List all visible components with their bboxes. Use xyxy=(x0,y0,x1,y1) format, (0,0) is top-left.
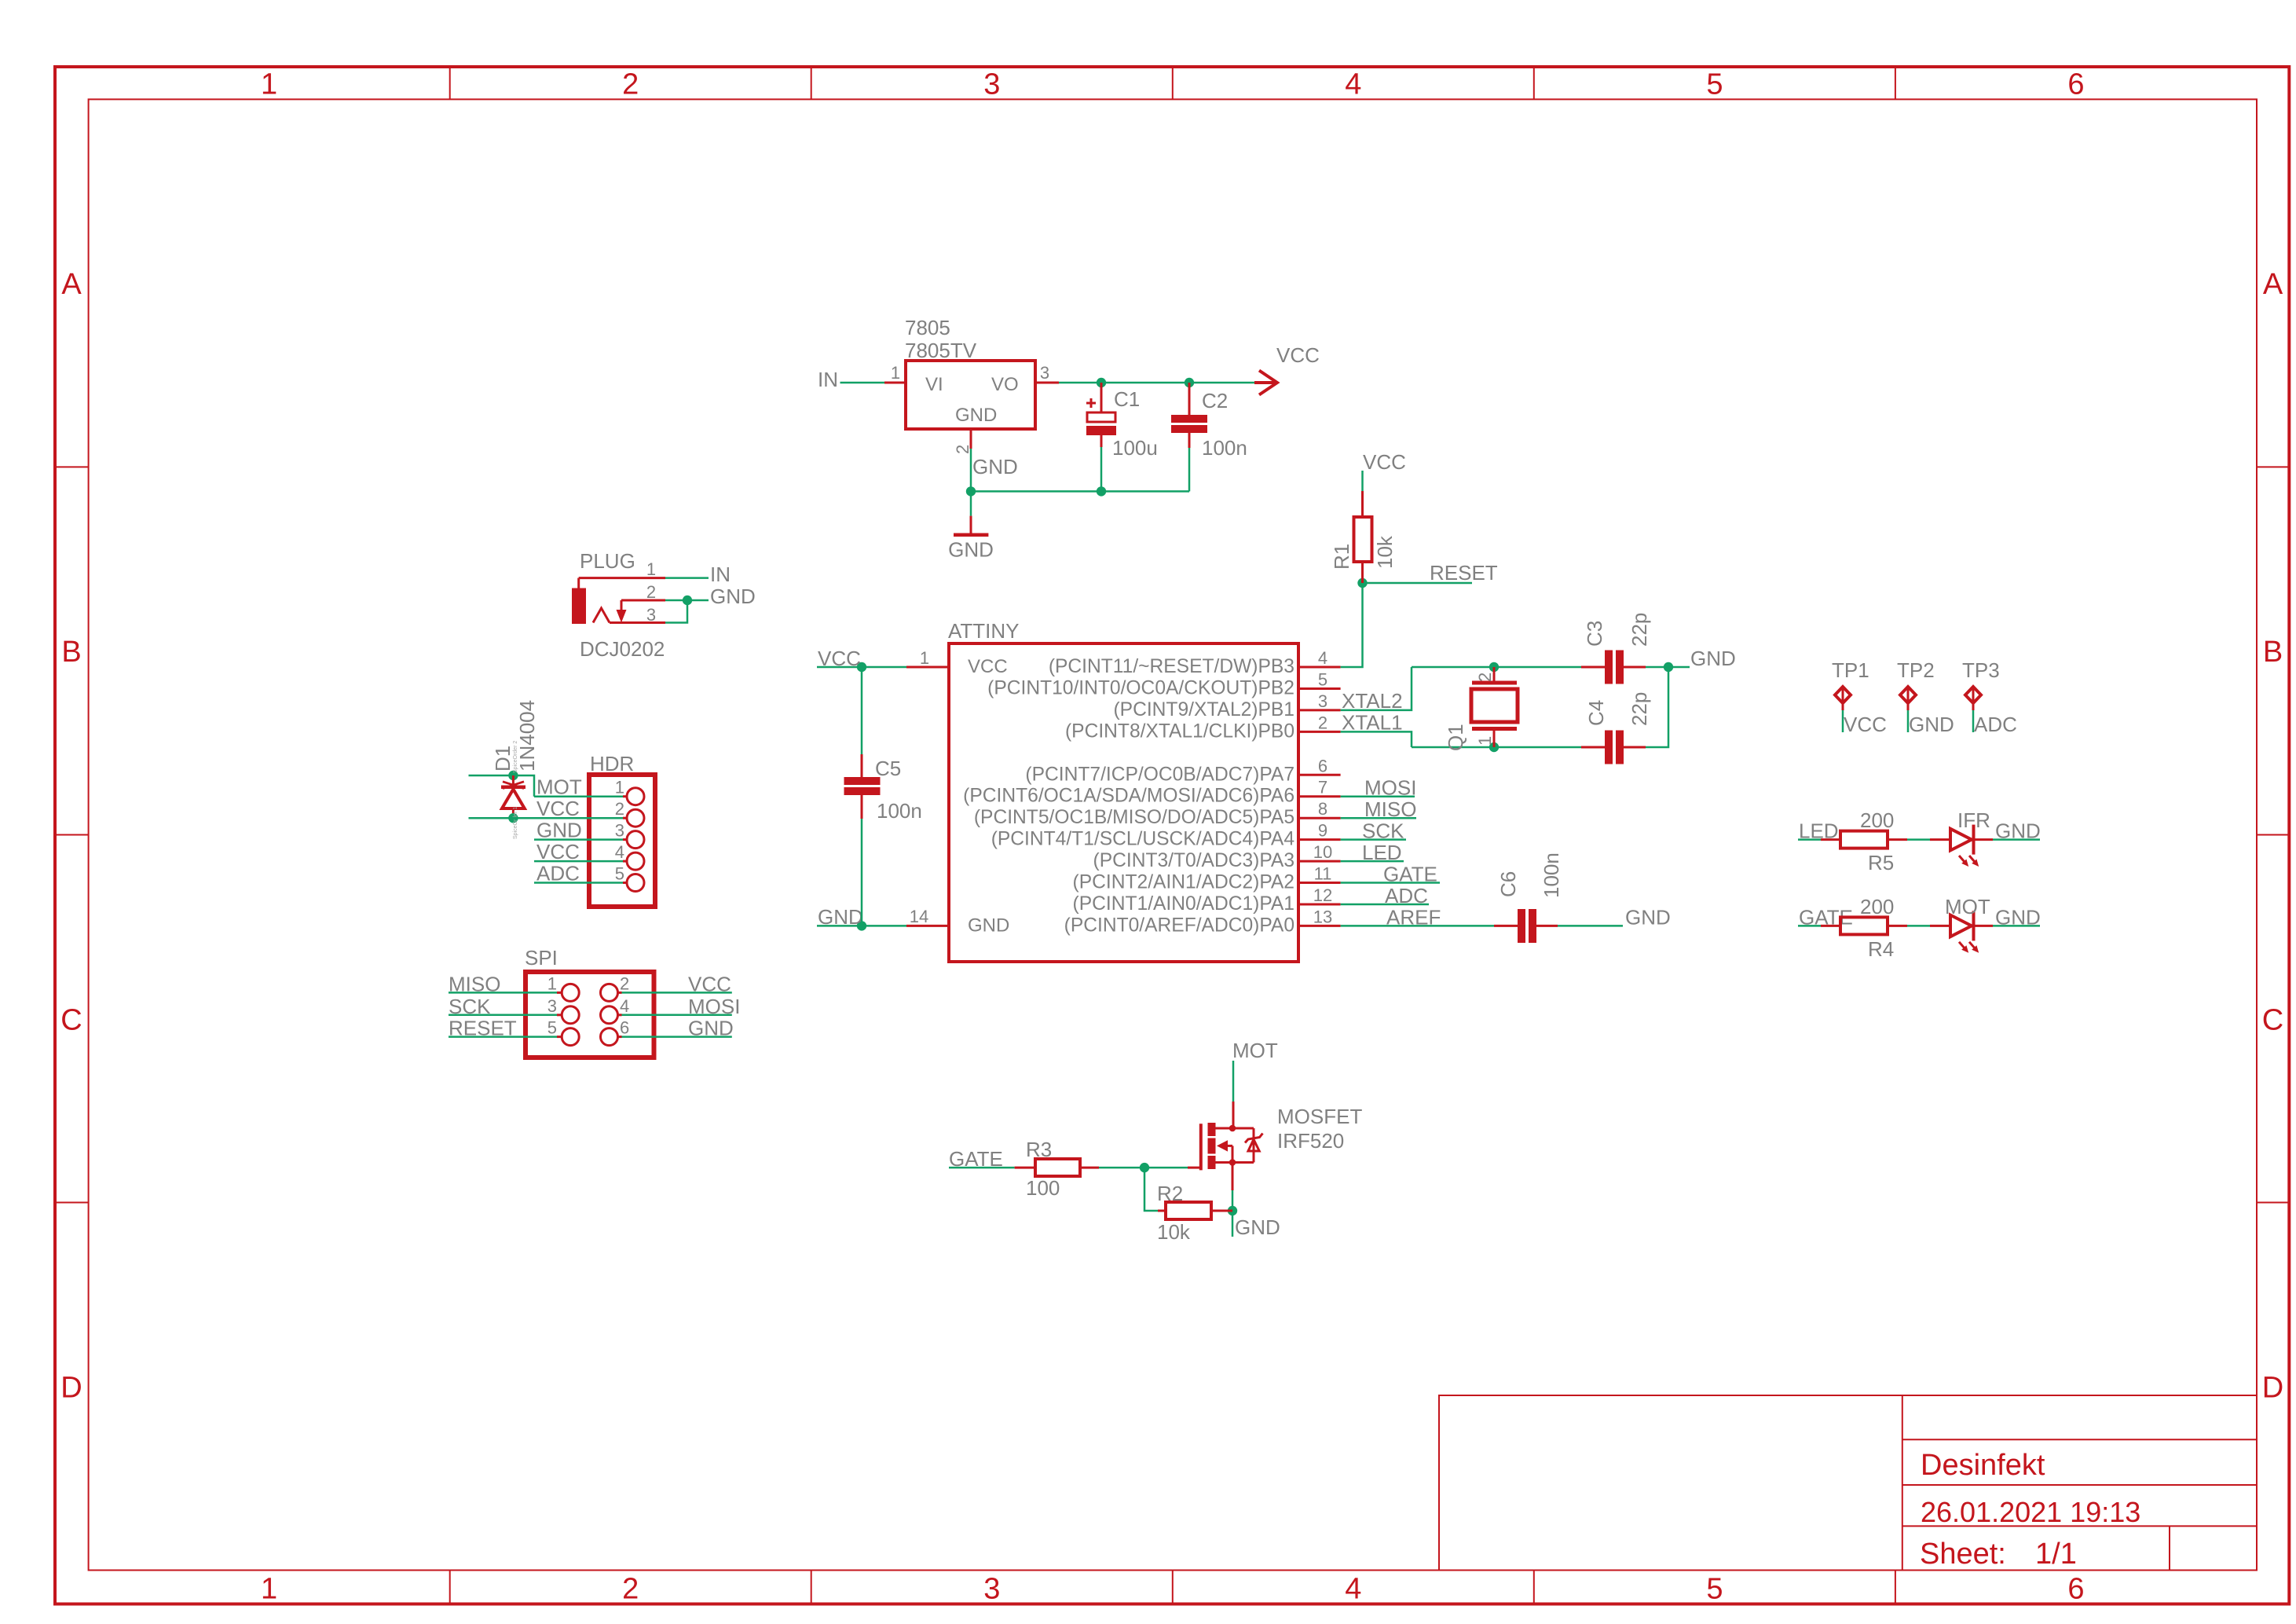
svg-text:R3: R3 xyxy=(1026,1138,1052,1161)
MOSFET drain pin xyxy=(1232,1102,1235,1128)
svg-text:VCC: VCC xyxy=(968,656,1008,677)
svg-text:(PCINT9/XTAL2)PB1: (PCINT9/XTAL2)PB1 xyxy=(1113,699,1294,720)
svg-text:ADC: ADC xyxy=(536,862,580,885)
svg-text:DCJ0202: DCJ0202 xyxy=(580,637,665,661)
wire net IN at plug xyxy=(665,577,709,579)
svg-text:VCC: VCC xyxy=(1844,713,1887,736)
MOSFET substrate arrow xyxy=(1217,1140,1228,1151)
svg-text:100: 100 xyxy=(1026,1176,1060,1200)
svg-text:C: C xyxy=(2262,1003,2283,1036)
capacitor C3 plate 2 xyxy=(1616,651,1624,684)
wire net RESET from ATTINY pin4 xyxy=(1341,583,1363,667)
svg-text:VCC: VCC xyxy=(536,797,580,820)
junction node GND bus at 7805 xyxy=(966,486,976,496)
LED IFR triangle xyxy=(1950,829,1972,851)
svg-text:GND: GND xyxy=(536,819,582,842)
svg-text:1: 1 xyxy=(920,648,929,668)
svg-text:LED: LED xyxy=(1362,841,1402,864)
svg-text:RESET: RESET xyxy=(1430,561,1498,585)
crystal Q1 top plate xyxy=(1472,681,1517,685)
junction node GND right of C3 xyxy=(1664,662,1673,672)
LED MOT anode pin xyxy=(1930,925,1950,927)
svg-text:7805: 7805 xyxy=(905,316,950,339)
pin 6 of SPI xyxy=(618,1036,622,1038)
resistor R4 left pin xyxy=(1821,925,1840,927)
MOSFET drain connection xyxy=(1216,1127,1254,1130)
svg-text:(PCINT5/OC1B/MISO/DO/ADC5)PA5: (PCINT5/OC1B/MISO/DO/ADC5)PA5 xyxy=(974,807,1294,828)
junction node crystal top xyxy=(1489,662,1499,672)
pin 2 of SPI xyxy=(618,992,622,994)
wire net GATE to R4 xyxy=(1798,925,1821,927)
svg-text:22p: 22p xyxy=(1628,613,1651,647)
MOSFET channel bar top xyxy=(1208,1123,1216,1136)
resistor R2 right pin xyxy=(1211,1210,1232,1212)
pin 8 of ATTINY xyxy=(1298,817,1341,819)
capacitor C4 plate 1 xyxy=(1605,731,1613,764)
capacitor C6 left pin xyxy=(1494,925,1518,927)
svg-text:R2: R2 xyxy=(1157,1182,1183,1205)
svg-text:IRF520: IRF520 xyxy=(1277,1129,1344,1153)
pin 2 of HDR xyxy=(623,817,627,819)
frame column labels bottom xyxy=(261,1573,2085,1606)
diode D1 triangle xyxy=(502,790,525,809)
resistor R1 bottom pin xyxy=(1361,562,1364,583)
capacitor C4 right pin xyxy=(1624,746,1646,749)
pin 3 of 7805 xyxy=(1035,382,1059,384)
capacitor C4 plate 2 xyxy=(1616,731,1624,764)
svg-text:VI: VI xyxy=(925,374,943,395)
wire net VCC at SPI xyxy=(622,992,732,994)
svg-text:10k: 10k xyxy=(1157,1220,1191,1244)
capacitor C5 plate 1 xyxy=(844,777,881,785)
junction node VCC at C5 xyxy=(857,662,866,672)
svg-text:3: 3 xyxy=(547,996,557,1016)
svg-text:1: 1 xyxy=(261,68,277,101)
wire crystal top line xyxy=(1412,666,1581,669)
svg-text:1: 1 xyxy=(261,1573,277,1606)
resistor R3 left pin xyxy=(1015,1167,1035,1169)
capacitor C4 left pin xyxy=(1581,746,1605,749)
svg-text:IN: IN xyxy=(710,563,731,586)
capacitor C5 bottom pin xyxy=(861,795,863,819)
LED MOT cathode bar xyxy=(1972,911,1976,940)
svg-text:XTAL2: XTAL2 xyxy=(1342,689,1403,713)
pin 4 of SPI xyxy=(618,1014,622,1016)
capacitor C3 plate 1 xyxy=(1605,651,1613,684)
wire LED MOT to GND xyxy=(1993,925,2040,927)
capacitor C1 negative plate xyxy=(1086,426,1116,435)
svg-text:1N4004: 1N4004 xyxy=(515,700,539,772)
svg-text:GND: GND xyxy=(688,1017,734,1040)
resistor R2 left pin xyxy=(1158,1210,1166,1212)
resistor R5 left pin xyxy=(1821,838,1840,841)
diode D1 cathode cross xyxy=(503,782,524,789)
LED IFR cathode pin xyxy=(1975,838,1993,841)
svg-text:ATTINY: ATTINY xyxy=(948,619,1020,643)
wire net VCC to ATTINY pin1 xyxy=(817,666,906,669)
pin 1 of SPI xyxy=(557,992,562,994)
wire net AREF from ATTINY pin13 xyxy=(1341,925,1494,927)
wire C2 to GND bus xyxy=(1188,448,1191,491)
pin 3 of SPI xyxy=(557,1014,562,1016)
svg-text:GND: GND xyxy=(818,905,863,929)
resistor R5 body xyxy=(1840,831,1888,849)
svg-text:12: 12 xyxy=(1313,885,1332,905)
resistor R3 body xyxy=(1035,1159,1080,1176)
pin 4 of HDR xyxy=(623,860,627,863)
capacitor C2 plate 1 xyxy=(1171,415,1207,423)
plug jack body xyxy=(572,588,586,625)
pin 5 of HDR xyxy=(623,882,627,884)
pin 12 of ATTINY xyxy=(1298,904,1341,906)
svg-text:SCK: SCK xyxy=(449,995,491,1018)
wire net SCK from ATTINY xyxy=(1341,838,1406,841)
wire net GND at plug pin3 xyxy=(665,600,687,623)
resistor R5 right pin xyxy=(1888,838,1907,841)
svg-text:GND: GND xyxy=(955,405,997,426)
svg-text:6: 6 xyxy=(620,1018,629,1038)
svg-text:(PCINT0/AREF/ADC0)PA0: (PCINT0/AREF/ADC0)PA0 xyxy=(1064,915,1294,936)
LED MOT triangle xyxy=(1950,915,1972,937)
pin 14 GND of ATTINY xyxy=(906,925,949,927)
junction node VCC at C1 xyxy=(1097,378,1106,387)
resistor R1 body xyxy=(1354,517,1372,562)
svg-text:VCC: VCC xyxy=(536,840,580,863)
pin 4 of ATTINY xyxy=(1298,666,1341,669)
svg-text:5: 5 xyxy=(1706,1573,1723,1606)
wire net VCC from 7805 pin3 xyxy=(1059,382,1254,384)
wire net VCC to HDR pin2 xyxy=(469,817,624,819)
MOSFET source connection xyxy=(1232,1146,1234,1162)
test point TP3 pad symbol xyxy=(1965,687,1981,703)
plug switch contact zigzag xyxy=(593,608,610,623)
svg-text:ADC: ADC xyxy=(1974,713,2017,736)
pin 1 VCC of ATTINY xyxy=(906,666,949,669)
pin 1 of plug xyxy=(579,577,665,579)
svg-text:3: 3 xyxy=(1318,691,1327,711)
svg-text:8: 8 xyxy=(1318,799,1327,819)
capacitor C6 right pin xyxy=(1536,925,1558,927)
svg-text:IN: IN xyxy=(818,368,838,391)
svg-text:GATE: GATE xyxy=(1383,863,1437,886)
MOSFET source node dot xyxy=(1229,1159,1236,1166)
pin 6 of ATTINY xyxy=(1298,774,1341,776)
capacitor C3 right pin xyxy=(1624,666,1646,669)
svg-text:R1: R1 xyxy=(1330,544,1353,570)
MOSFET body diode branch xyxy=(1253,1128,1255,1163)
pin 3 of HDR xyxy=(623,838,627,841)
wire gate node to MOSFET gate xyxy=(1144,1167,1188,1169)
svg-text:100u: 100u xyxy=(1112,436,1158,460)
wire R5 to LED IFR xyxy=(1907,838,1930,841)
pin 1 of 7805 xyxy=(884,382,906,384)
svg-text:1: 1 xyxy=(547,973,557,993)
wire net XTAL1 from ATTINY pin2 xyxy=(1341,731,1412,747)
svg-text:PLUG: PLUG xyxy=(580,549,635,573)
wire GND stub below R2 xyxy=(1232,1211,1234,1237)
wire C1 to GND bus xyxy=(1100,447,1103,491)
pin 1 of HDR xyxy=(623,795,627,797)
svg-text:GND: GND xyxy=(1995,819,2041,843)
svg-text:MOT: MOT xyxy=(536,775,582,799)
pin 10 of ATTINY xyxy=(1298,860,1341,863)
capacitor C1 bottom pin xyxy=(1100,435,1103,447)
svg-text:100n: 100n xyxy=(877,799,922,823)
svg-text:2: 2 xyxy=(646,582,656,602)
MOSFET source pin down xyxy=(1232,1163,1234,1191)
svg-text:(PCINT6/OC1A/SDA/MOSI/ADC6)PA6: (PCINT6/OC1A/SDA/MOSI/ADC6)PA6 xyxy=(963,786,1294,807)
resistor R3 right pin xyxy=(1080,1167,1099,1169)
svg-text:VO: VO xyxy=(991,374,1019,395)
capacitor C1 top pin xyxy=(1100,383,1103,412)
wire net LED from ATTINY xyxy=(1341,860,1404,863)
svg-text:13: 13 xyxy=(1313,907,1332,926)
capacitor C1 positive plate xyxy=(1087,412,1115,422)
wire net MISO at SPI xyxy=(449,992,557,994)
junction node GND at R2 xyxy=(1228,1206,1237,1215)
wire net SCK at SPI xyxy=(449,1014,557,1017)
pin 2 of 7805 xyxy=(970,429,972,449)
capacitor C1 plus sign xyxy=(1086,398,1096,408)
svg-text:C1: C1 xyxy=(1114,387,1140,411)
svg-text:R4: R4 xyxy=(1868,937,1894,961)
svg-text:GND: GND xyxy=(1995,905,2041,929)
wire net GND at plug pin2 xyxy=(665,599,709,602)
LED MOT light arrows xyxy=(1959,942,1965,949)
frame row labels left xyxy=(60,268,82,1404)
crystal Q1 body xyxy=(1471,689,1518,722)
wire net MISO from ATTINY xyxy=(1341,817,1416,819)
wire net VCC above R1 xyxy=(1361,471,1364,491)
wire net GND to HDR pin3 xyxy=(534,838,623,841)
crystal Q1 pin 2 xyxy=(1493,667,1496,681)
svg-text:VCC: VCC xyxy=(1276,343,1320,367)
svg-text:D: D xyxy=(60,1371,82,1404)
wire C4 up to GND junction xyxy=(1646,667,1668,747)
svg-text:C3: C3 xyxy=(1583,621,1606,647)
svg-text:GND: GND xyxy=(1235,1215,1280,1239)
svg-text:TP3: TP3 xyxy=(1962,658,2000,682)
svg-text:100n: 100n xyxy=(1202,436,1247,460)
test point TP1 pad symbol xyxy=(1835,687,1851,703)
svg-text:4: 4 xyxy=(1318,648,1327,668)
wire net XTAL2 from ATTINY pin3 xyxy=(1341,667,1412,710)
svg-text:200: 200 xyxy=(1860,808,1894,832)
MOSFET channel bar bottom xyxy=(1208,1156,1216,1169)
resistor R1 top pin xyxy=(1361,491,1364,517)
svg-text:3: 3 xyxy=(1040,363,1049,383)
svg-text:2: 2 xyxy=(953,445,972,454)
svg-text:C: C xyxy=(60,1003,82,1036)
LED MOT cathode pin xyxy=(1975,925,1993,927)
svg-text:GND: GND xyxy=(1625,905,1671,929)
frame row labels right xyxy=(2262,268,2283,1404)
svg-text:MOT: MOT xyxy=(1945,895,1990,918)
svg-text:A: A xyxy=(2263,268,2283,301)
wire net RESET label run xyxy=(1363,582,1473,585)
svg-text:1: 1 xyxy=(891,363,900,383)
svg-text:C2: C2 xyxy=(1202,389,1228,412)
wire from TP1 xyxy=(1842,710,1844,732)
diode D1 anode pin xyxy=(512,808,514,818)
resistor R2 body xyxy=(1166,1202,1211,1219)
wire from TP3 xyxy=(1972,710,1975,732)
svg-text:XTAL1: XTAL1 xyxy=(1342,710,1403,734)
plug body stem xyxy=(577,578,580,588)
svg-text:6: 6 xyxy=(1318,756,1327,775)
svg-text:26.01.2021 19:13: 26.01.2021 19:13 xyxy=(1921,1496,2140,1528)
junction node gate xyxy=(1140,1163,1149,1172)
svg-text:6: 6 xyxy=(2067,68,2084,101)
svg-text:1/1: 1/1 xyxy=(2035,1538,2077,1571)
plug sleeve arrow xyxy=(621,600,623,611)
svg-text:VCC: VCC xyxy=(688,972,731,995)
svg-text:VCC: VCC xyxy=(1363,450,1406,474)
svg-text:200: 200 xyxy=(1860,895,1894,918)
svg-text:1: 1 xyxy=(615,778,624,797)
MOSFET drain node dot xyxy=(1229,1125,1236,1132)
wire GND bus to ground symbol xyxy=(970,491,972,515)
junction node crystal bottom xyxy=(1489,742,1499,752)
svg-text:5: 5 xyxy=(1706,68,1723,101)
junction node RESET at R1 xyxy=(1357,578,1367,588)
svg-text:C4: C4 xyxy=(1584,700,1608,726)
svg-text:4: 4 xyxy=(620,996,629,1016)
svg-text:IFR: IFR xyxy=(1957,808,1990,832)
wire net ADC to HDR pin5 xyxy=(534,882,623,884)
wire net MOT to MOSFET drain xyxy=(1232,1061,1235,1102)
svg-text:RESET: RESET xyxy=(449,1017,517,1040)
svg-text:MOSI: MOSI xyxy=(688,995,740,1018)
svg-text:4: 4 xyxy=(1345,1573,1361,1606)
wire 7805 pin2 to GND bus xyxy=(970,449,972,491)
svg-text:MOSFET: MOSFET xyxy=(1277,1105,1362,1128)
junction node GND at C5 xyxy=(857,921,866,930)
pin 3 of plug xyxy=(610,621,665,624)
wire C6 to GND label xyxy=(1558,925,1623,927)
voltage regulator 7805 body xyxy=(906,361,1035,429)
svg-text:2: 2 xyxy=(622,1573,639,1606)
wire R4 to LED MOT xyxy=(1907,925,1930,927)
svg-text:Sheet:: Sheet: xyxy=(1920,1538,2006,1571)
wire C5 to GND wire xyxy=(861,819,863,926)
capacitor C2 top pin xyxy=(1188,383,1191,415)
svg-text:(PCINT3/T0/ADC3)PA3: (PCINT3/T0/ADC3)PA3 xyxy=(1093,850,1294,871)
LED IFR anode pin xyxy=(1930,838,1950,841)
diode D1 cathode pin xyxy=(512,775,514,785)
capacitor C6 plate 2 xyxy=(1529,909,1536,943)
frame column ticks top xyxy=(450,67,1895,99)
svg-text:MOT: MOT xyxy=(1232,1039,1278,1062)
svg-text:D: D xyxy=(2262,1371,2283,1404)
capacitor C5 top pin xyxy=(861,754,863,777)
svg-text:9: 9 xyxy=(1318,821,1327,841)
svg-text:100n: 100n xyxy=(1540,852,1563,898)
svg-text:B: B xyxy=(2263,636,2283,669)
wire net GND at SPI xyxy=(622,1036,732,1038)
svg-text:5: 5 xyxy=(615,864,624,884)
MOSFET body diode cathode xyxy=(1245,1134,1263,1143)
resistor R4 right pin xyxy=(1888,925,1907,927)
capacitor C5 plate 2 xyxy=(844,787,881,795)
frame row ticks left xyxy=(55,467,89,1202)
svg-text:R5: R5 xyxy=(1868,851,1894,874)
svg-text:2: 2 xyxy=(622,68,639,101)
svg-text:(PCINT4/T1/SCL/USCK/ADC4)PA4: (PCINT4/T1/SCL/USCK/ADC4)PA4 xyxy=(991,829,1294,850)
wire gate node down to R2 xyxy=(1144,1168,1158,1211)
svg-text:4: 4 xyxy=(615,842,624,862)
svg-text:(PCINT10/INT0/OC0A/CKOUT)PB2: (PCINT10/INT0/OC0A/CKOUT)PB2 xyxy=(987,678,1294,699)
MOSFET gate pin xyxy=(1188,1167,1201,1169)
connector SPI body xyxy=(525,972,654,1058)
svg-text:B: B xyxy=(61,636,81,669)
svg-text:TP1: TP1 xyxy=(1832,658,1869,682)
wire net MOT to HDR pin1 xyxy=(534,795,623,797)
svg-text:GND: GND xyxy=(1690,647,1736,670)
svg-text:3: 3 xyxy=(983,68,1000,101)
wire net LED to R5 xyxy=(1798,838,1821,841)
supply arrow VCC xyxy=(1254,371,1277,395)
crystal Q1 pin 1 xyxy=(1493,731,1496,747)
frame row ticks right xyxy=(2257,467,2289,1202)
pin 7 of ATTINY xyxy=(1298,795,1341,797)
svg-text:2: 2 xyxy=(1475,673,1495,682)
svg-text:1: 1 xyxy=(646,559,656,579)
wire net MOSI at SPI xyxy=(622,1014,732,1017)
junction node GND bus at C1 xyxy=(1097,486,1106,496)
svg-text:ADC: ADC xyxy=(1385,884,1428,907)
junction node VCC at C2 xyxy=(1185,378,1194,387)
wire net ADC from ATTINY xyxy=(1341,904,1429,906)
ground symbol pin xyxy=(970,516,972,533)
svg-text:TP2: TP2 xyxy=(1897,658,1935,682)
svg-text:2: 2 xyxy=(615,799,624,819)
svg-text:6: 6 xyxy=(2067,1573,2084,1606)
svg-text:5: 5 xyxy=(547,1018,557,1038)
junction node VCC at D1 xyxy=(508,813,518,823)
pin 9 of ATTINY xyxy=(1298,838,1341,841)
svg-text:7: 7 xyxy=(1318,778,1327,797)
svg-text:D1: D1 xyxy=(491,746,514,772)
pin 5 of SPI xyxy=(557,1036,562,1038)
ground symbol bar xyxy=(954,533,988,537)
svg-text:3: 3 xyxy=(615,821,624,841)
svg-text:(PCINT8/XTAL1/CLKI)PB0: (PCINT8/XTAL1/CLKI)PB0 xyxy=(1065,720,1294,742)
MOSFET gate line xyxy=(1199,1124,1203,1170)
svg-text:11: 11 xyxy=(1314,864,1332,884)
svg-text:SPI: SPI xyxy=(525,946,558,970)
pin 5 of ATTINY xyxy=(1298,687,1341,690)
svg-text:GND: GND xyxy=(710,585,756,608)
wire net MOT top of D1 xyxy=(469,775,535,797)
frame column ticks bottom xyxy=(450,1571,1895,1604)
svg-text:C5: C5 xyxy=(875,757,901,780)
pin 11 of ATTINY xyxy=(1298,882,1341,884)
MOSFET body diode triangle xyxy=(1248,1139,1259,1151)
svg-text:(PCINT1/AIN0/ADC1)PA1: (PCINT1/AIN0/ADC1)PA1 xyxy=(1073,893,1294,915)
svg-text:Desinfekt: Desinfekt xyxy=(1921,1449,2045,1482)
capacitor C6 plate 1 xyxy=(1518,909,1525,943)
wire net GATE from ATTINY xyxy=(1341,882,1440,884)
wire net RESET at SPI xyxy=(449,1036,557,1038)
svg-text:SpiceOrder 1: SpiceOrder 1 xyxy=(513,807,518,839)
LED IFR cathode bar xyxy=(1972,825,1976,855)
wire net GND to ATTINY pin14 xyxy=(817,925,906,927)
capacitor C2 plate 2 xyxy=(1171,425,1207,433)
wire net IN to 7805 pin1 xyxy=(840,382,885,384)
wire from TP2 xyxy=(1907,710,1910,732)
junction node GND at plug xyxy=(683,596,692,605)
